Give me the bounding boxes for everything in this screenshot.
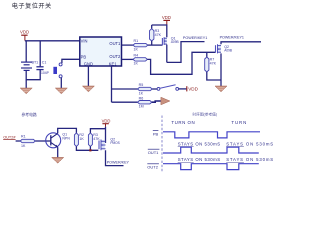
port arrow [161,97,170,105]
wire Q2 source down [106,150,124,165]
resistor R2 1K (ref) [74,133,78,147]
svg-text:1K: 1K [79,137,84,141]
wire Q2 source [220,53,222,86]
svg-text:OUT1: OUT1 [109,41,121,46]
svg-text:POWER/KEY: POWER/KEY [107,161,130,165]
resistor R1 1K (ref) [20,139,35,142]
svg-text:104P: 104P [41,71,50,75]
wire [35,140,50,142]
svg-text:STAYS ON 530mS: STAYS ON 530mS [226,157,274,162]
svg-text:PB: PB [81,54,87,59]
resistor R5 1K [138,87,153,90]
svg-text:A09B: A09B [224,49,232,53]
transistor Q1 NPN (ref) [46,132,71,147]
svg-text:OUT1: OUT1 [148,150,159,155]
svg-text:R4: R4 [134,54,139,58]
svg-text:R1: R1 [134,39,139,43]
wire drain loop [167,42,205,63]
wire VDD2 rail [152,25,167,37]
svg-text:STAYS ON 530mS: STAYS ON 530mS [226,141,274,146]
svg-text:VDD: VDD [102,118,111,123]
ground (Q2 source) [215,86,227,92]
wire OUT1 [122,44,134,46]
resistor R3 47K [151,25,153,29]
wire [152,88,157,90]
node junction dot [89,149,91,151]
pushbutton S1 [59,63,62,78]
resistor R3 47K (ref) [88,133,92,147]
power VDD (switch) [186,86,188,91]
wire Q2 drain [221,42,261,45]
wire battery bottom [26,70,40,80]
ground (battery) [20,88,32,94]
svg-text:47K: 47K [210,61,217,65]
svg-text:1K: 1K [134,48,139,52]
transistor Q2 NMOS [216,44,233,53]
wire PB to switch [62,59,80,63]
wire Q1 source/drain [166,45,168,63]
transistor Q2 PMOS (ref) [99,137,120,150]
svg-text:R1: R1 [21,134,26,138]
battery BT1 [21,62,32,70]
svg-text:STAYS ON 530mS: STAYS ON 530mS [178,141,221,146]
resistor R4 1K [133,58,147,61]
timing label PB [153,130,159,132]
svg-text:C1: C1 [42,60,47,64]
wire gate Q1 [148,44,163,46]
wire top rail VIN [25,40,80,42]
svg-text:BT1: BT1 [32,60,39,64]
svg-text:A09B: A09B [171,40,179,44]
svg-text:时序图(参考值): 时序图(参考值) [193,111,218,116]
svg-text:VDD: VDD [162,15,171,20]
wire gate Q2 route [147,52,215,74]
svg-text:VIN: VIN [81,38,88,43]
svg-text:KE1: KE1 [109,61,117,66]
svg-text:1K: 1K [134,62,139,66]
wire gate rail [76,147,98,151]
wire [152,101,161,102]
svg-text:1K: 1K [139,91,144,95]
timing dashed guide [161,116,163,173]
wire branch to R3 [90,129,105,133]
timing label OUT2 [147,163,159,165]
svg-text:VDD: VDD [188,86,198,91]
svg-text:GND: GND [84,61,93,66]
capacitor C1 [39,41,41,67]
wire [16,140,21,142]
waveform PB [163,132,260,138]
switch S1 [157,88,160,91]
svg-text:47K: 47K [93,137,100,141]
transistor Q1 PMOS [162,36,178,45]
svg-text:OUT2#: OUT2# [3,136,16,140]
svg-text:POWER/KEY1: POWER/KEY1 [220,36,244,40]
svg-text:STAYS ON 530mS: STAYS ON 530mS [178,157,221,162]
waveform OUT2 [163,164,259,170]
svg-text:R6: R6 [139,96,144,100]
svg-text:R5: R5 [139,83,144,87]
wire emitter [57,147,59,157]
resistor R7 47K [206,52,208,57]
wire battery drop [25,41,27,62]
ground (emitter) [52,157,64,163]
wire GND pin [87,66,89,86]
svg-text:PMOS: PMOS [110,141,119,145]
power VDD1 [21,35,27,40]
svg-text:OUT2: OUT2 [147,164,158,169]
svg-text:OUT2: OUT2 [109,54,121,59]
waveform OUT1 [163,147,259,153]
svg-text:VDD: VDD [20,30,29,35]
svg-text:NPN: NPN [62,136,70,140]
svg-text:参考电路: 参考电路 [22,112,37,117]
ground (pushbutton) [55,88,67,94]
timing label OUT1 [148,148,160,150]
svg-text:47K: 47K [155,33,162,37]
wire VDD3 down [105,127,107,143]
op-amp U1 (reset switch IC) [80,37,122,66]
wire collector [58,128,77,133]
resistor R6 1M [138,101,152,104]
svg-text:1M: 1M [139,105,144,109]
svg-text:PB: PB [153,131,159,136]
svg-text:TURN ON: TURN ON [171,120,195,125]
ground (IC) [82,86,94,92]
svg-text:电子复位开关: 电子复位开关 [12,2,52,10]
svg-text:1K: 1K [21,144,26,148]
svg-text:TURN: TURN [231,120,247,125]
wire R4 out [122,58,134,60]
svg-text:POWER/KEY1: POWER/KEY1 [183,36,207,40]
wire KE1 pin [111,66,113,102]
resistor R1 1K [133,43,148,46]
